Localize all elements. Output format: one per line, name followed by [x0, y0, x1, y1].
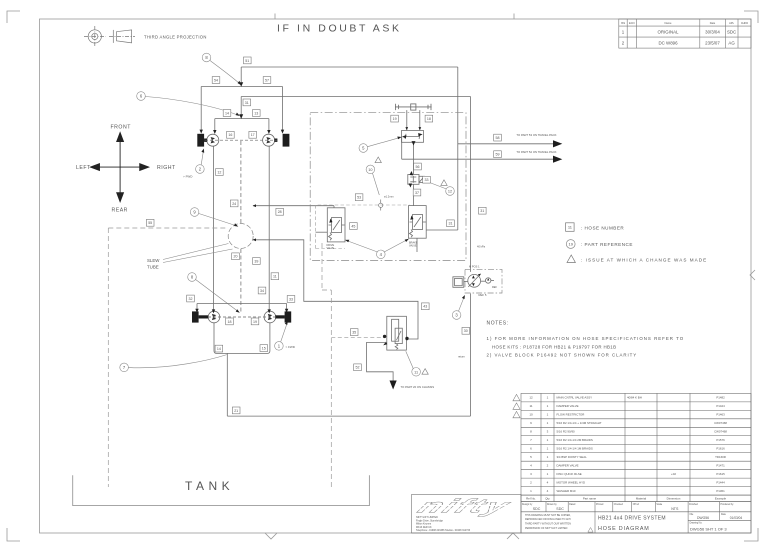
svg-text:Material: Material	[636, 497, 647, 501]
rear brake left	[192, 311, 199, 322]
svg-text:ISS: ISS	[621, 21, 625, 25]
svg-text:P1616: P1616	[716, 447, 725, 451]
svg-text:HOSE KITS : P18728 FOR HB21 &: HOSE KITS : P18728 FOR HB21 & P19797 FOR…	[492, 344, 616, 349]
svg-text:4: 4	[530, 464, 532, 468]
svg-text:Part name: Part name	[583, 497, 597, 501]
wire divider left port down	[401, 137, 403, 160]
svg-text:5/16 R2 1/4-1/4 + 1/4M STRAIGH: 5/16 R2 1/4-1/4 + 1/4M STRAIGHT	[557, 421, 602, 425]
front axle dashed line	[205, 139, 277, 141]
svg-text:TANK: TANK	[185, 479, 234, 493]
title block bottom row	[521, 512, 751, 533]
part ref 8 top	[202, 53, 239, 83]
svg-text:9: 9	[530, 421, 532, 425]
svg-text:11: 11	[273, 275, 277, 279]
svg-text:RIGHT: RIGHT	[157, 165, 176, 171]
hose tag 39	[253, 258, 261, 265]
hose tag 31	[447, 220, 455, 227]
svg-text:4: 4	[380, 252, 383, 257]
svg-text:1: 1	[530, 489, 532, 493]
parts row 2	[530, 481, 725, 485]
rear manifold upper	[197, 304, 287, 311]
parts row 11	[529, 404, 725, 408]
warning triangle 10	[375, 157, 381, 163]
svg-text:Checked: Checked	[614, 504, 624, 506]
svg-text:P1444: P1444	[716, 481, 725, 485]
svg-text:Qty: Qty	[545, 497, 550, 501]
svg-text:58: 58	[496, 136, 500, 140]
svg-text:1: 1	[547, 447, 549, 451]
svg-text:37: 37	[415, 191, 419, 195]
corner trim mark bottom-left	[7, 528, 20, 541]
wire right riser to brake valve	[457, 67, 459, 230]
svg-text:01/03/04: 01/03/04	[730, 516, 743, 520]
part ref 6	[137, 92, 238, 115]
hose tag 11	[271, 273, 279, 280]
hose tag 19	[251, 318, 259, 325]
drive valve right	[409, 206, 458, 252]
wire slew feed A	[253, 206, 334, 208]
svg-text:56: 56	[416, 165, 420, 169]
svg-text:1: 1	[547, 421, 549, 425]
svg-text:Dimension: Dimension	[667, 497, 681, 501]
svg-text:12: 12	[448, 190, 452, 194]
svg-text:REF: REF	[492, 286, 497, 289]
svg-text:VALVE: VALVE	[327, 247, 335, 250]
svg-text:P1463: P1463	[716, 413, 725, 417]
arrowhead hose31 riser	[239, 114, 243, 119]
hose tag 54	[212, 77, 220, 84]
svg-text:1: 1	[547, 404, 549, 408]
hose tag 19	[391, 115, 399, 122]
leader slew tube a	[163, 244, 229, 260]
hose tag 51	[244, 57, 252, 64]
bottom rail to pump	[227, 415, 470, 417]
hose tag 57	[263, 77, 271, 84]
svg-text:1: 1	[547, 413, 549, 417]
arrowhead leader 1	[285, 321, 288, 325]
svg-text:13: 13	[254, 111, 258, 115]
parts row 8	[530, 430, 727, 434]
parts row 7	[530, 438, 725, 442]
svg-text:TO PART 20 ON CHASSIS: TO PART 20 ON CHASSIS	[401, 385, 435, 389]
hose tag 18	[226, 318, 234, 325]
hose tag 53	[355, 194, 363, 201]
flow divider valve	[402, 131, 424, 143]
legend hose tag symbol	[566, 223, 575, 232]
svg-text:31: 31	[480, 209, 484, 213]
svg-text:2) VALVE BLOCK P16492 NOT SHOW: 2) VALVE BLOCK P16492 NOT SHOWN FOR CLAR…	[487, 353, 638, 358]
svg-text:2: 2	[622, 41, 625, 46]
svg-text:Drawing No.: Drawing No.	[690, 522, 703, 525]
svg-text:TD160R: TD160R	[715, 455, 726, 459]
svg-text:1) FOR MORE INFORMATION ON HOS: 1) FOR MORE INFORMATION ON HOSE SPECIFIC…	[487, 336, 685, 341]
svg-text:43: 43	[423, 305, 427, 309]
hose tag 14	[223, 110, 231, 117]
svg-text:Ref No.: Ref No.	[526, 497, 536, 501]
hose tag 17	[249, 131, 257, 138]
hose tag 32	[187, 295, 195, 302]
svg-text:: PART REFERENCE: : PART REFERENCE	[581, 242, 633, 247]
electric motor box	[453, 277, 468, 288]
revision table	[619, 19, 751, 48]
part ref 5	[359, 138, 399, 153]
svg-text:P1576: P1576	[716, 438, 725, 442]
rear lower manifold loop	[214, 323, 270, 354]
centre dashed line upper	[240, 141, 242, 223]
svg-text:PERMISSION OF NIFTYLIFT LIMITE: PERMISSION OF NIFTYLIFT LIMITED	[525, 527, 568, 530]
part ref 11	[406, 351, 421, 376]
svg-text:CW07468: CW07468	[714, 430, 727, 434]
arrowhead divider top left	[405, 127, 408, 130]
parts row 4	[530, 464, 725, 468]
hose tag 18	[425, 115, 433, 122]
arrowhead leader 4 right	[405, 239, 409, 242]
parts row 1	[530, 489, 725, 493]
svg-text:TUBE: TUBE	[147, 265, 159, 270]
svg-text:53: 53	[357, 196, 361, 200]
hose tag 34	[258, 287, 266, 294]
wire to part 52	[402, 158, 553, 160]
svg-text:SDC: SDC	[727, 30, 736, 35]
svg-text:: HOSE NUMBER: : HOSE NUMBER	[581, 225, 624, 230]
dashed return line to tank left	[107, 228, 109, 487]
port dot left	[383, 335, 386, 338]
svg-text:1: 1	[547, 438, 549, 442]
hose tag 56	[414, 163, 422, 170]
svg-text:12: 12	[529, 396, 533, 400]
svg-text:Date: Date	[721, 513, 727, 516]
svg-text:DAMPER VALVE: DAMPER VALVE	[557, 404, 579, 408]
svg-text:5: 5	[362, 146, 365, 151]
drive valve left	[316, 208, 345, 242]
bottom edge centre mark 2	[507, 533, 519, 539]
hose tag 43	[422, 303, 430, 310]
nifty logo	[413, 495, 517, 517]
svg-text:33: 33	[289, 297, 293, 301]
arrowhead divider top right	[418, 127, 421, 130]
svg-text:35: 35	[352, 331, 356, 335]
wire steering drops	[407, 110, 420, 130]
dashed branch to slew	[108, 227, 228, 229]
svg-text:23/5/07: 23/5/07	[705, 41, 720, 46]
svg-text:24: 24	[232, 202, 236, 206]
arrowhead pump swash	[478, 274, 481, 277]
change triangle row 12	[513, 394, 520, 400]
svg-text:39: 39	[254, 259, 258, 263]
svg-text:P1424: P1424	[716, 404, 725, 408]
orifice restrictor	[379, 200, 383, 211]
svg-text:> FWD: > FWD	[286, 345, 296, 349]
hose tag 55	[146, 219, 154, 226]
hose tag 21	[232, 407, 240, 414]
svg-text:34: 34	[260, 289, 264, 293]
change triangle row 11	[513, 403, 520, 409]
wire hose 51 top run	[241, 66, 458, 68]
svg-text:P1482: P1482	[716, 396, 725, 400]
top edge fold tick 2	[513, 14, 515, 20]
svg-text:File: File	[690, 514, 694, 516]
svg-text:4: 4	[547, 481, 549, 485]
wire rear drain riser	[226, 353, 228, 416]
svg-text:Name: Name	[665, 21, 672, 25]
corner trim mark top-right	[744, 11, 758, 23]
parts row 10	[529, 413, 725, 417]
svg-text:NTS: NTS	[671, 507, 679, 511]
arrowhead divider right	[418, 133, 422, 136]
svg-text:P1471: P1471	[716, 464, 725, 468]
svg-text:3/4 BSP DOWTY SEAL: 3/4 BSP DOWTY SEAL	[557, 455, 588, 459]
svg-text:2: 2	[547, 464, 549, 468]
wire right motor down line	[268, 146, 270, 311]
wire hose 31 run to pump	[241, 97, 470, 272]
rear axle dashed line	[208, 316, 278, 318]
svg-text:LEFT: LEFT	[76, 165, 91, 171]
svg-text:5: 5	[530, 455, 532, 459]
arrowhead leader 4 left	[345, 240, 349, 243]
arrowhead rear right motor line	[268, 309, 271, 313]
pump chain-dash box	[465, 269, 502, 293]
svg-text:THIRD PARTY WITHOUT OUR WRITTE: THIRD PARTY WITHOUT OUR WRITTEN	[525, 523, 571, 526]
part ref 3	[452, 297, 464, 319]
hose tag 16	[227, 131, 235, 138]
svg-text:Off ref: Off ref	[633, 503, 640, 506]
svg-text:MOTOR WHEEL HYD: MOTOR WHEEL HYD	[557, 481, 586, 485]
hose tag 37	[413, 189, 421, 196]
part ref 1	[275, 324, 287, 351]
part ref 10	[366, 165, 379, 195]
hose tag 20	[232, 253, 240, 260]
arrowhead travel 2	[553, 156, 562, 163]
parts row 3	[530, 472, 725, 476]
wire divider bottom down	[413, 142, 415, 174]
arrowhead feed A	[253, 204, 256, 207]
svg-text:17: 17	[251, 133, 255, 137]
svg-text:ORIGINAL: ORIGINAL	[658, 30, 680, 35]
svg-text:VALVE: VALVE	[409, 245, 417, 248]
svg-text:REAR: REAR	[112, 208, 128, 214]
legend part ref symbol	[566, 240, 575, 249]
orientation cross	[91, 133, 149, 202]
svg-text:20: 20	[234, 255, 238, 259]
parts row 5	[530, 455, 726, 459]
part ref 12	[427, 182, 454, 196]
hose tag 35	[350, 329, 358, 336]
leader slew tube b	[163, 249, 233, 263]
svg-text:IF IN DOUBT ASK: IF IN DOUBT ASK	[277, 23, 402, 35]
wire left motor down line	[213, 146, 215, 311]
front brake right	[283, 134, 290, 147]
svg-text:1: 1	[547, 396, 549, 400]
wire pump to bottom rail	[470, 294, 472, 417]
svg-text:9: 9	[193, 210, 196, 215]
svg-text:30: 30	[464, 329, 468, 333]
svg-text:54: 54	[214, 78, 218, 82]
hose tag 31	[479, 207, 487, 214]
junction dot divider bottom	[412, 141, 416, 145]
part ref 4	[347, 240, 408, 259]
svg-text:31: 31	[245, 101, 249, 105]
svg-text:8: 8	[205, 55, 208, 60]
arrowhead feed B	[253, 238, 256, 241]
svg-text:45: 45	[351, 224, 355, 228]
wire prv to brake valve	[413, 184, 415, 205]
hose tag 33	[287, 296, 295, 303]
svg-text:P1615: P1615	[716, 472, 725, 476]
svg-text:2: 2	[199, 167, 202, 172]
svg-text:3: 3	[530, 472, 532, 476]
hose tag 14	[215, 345, 223, 352]
svg-text:19: 19	[393, 117, 397, 121]
svg-text:6: 6	[530, 447, 532, 451]
svg-text:WASHER M10: WASHER M10	[557, 489, 576, 493]
svg-text:SDC: SDC	[556, 507, 564, 511]
svg-text:TO PART 52 ON TRAVEL PACK: TO PART 52 ON TRAVEL PACK	[516, 150, 556, 154]
arrowhead pump flow up	[472, 275, 475, 278]
svg-text:51: 51	[245, 59, 249, 63]
centre dashed line lower	[240, 249, 242, 314]
svg-text:40/84 K BH: 40/84 K BH	[627, 396, 642, 400]
svg-text:Finished: Finished	[689, 504, 698, 506]
arrowhead manifold left	[200, 130, 203, 134]
parts row 12	[529, 396, 725, 400]
arrowhead hose51 riser	[239, 82, 243, 87]
svg-text:1: 1	[278, 344, 281, 349]
svg-text:57: 57	[265, 78, 269, 82]
legend change triangle symbol	[567, 255, 575, 263]
svg-text:6: 6	[140, 94, 143, 99]
svg-text:10: 10	[368, 168, 372, 172]
svg-text:55: 55	[148, 221, 152, 225]
svg-text:NOTES:: NOTES:	[487, 321, 509, 327]
rear wheel motor left	[192, 311, 291, 323]
svg-text:TO PART 53 ON TRAVEL PACK: TO PART 53 ON TRAVEL PACK	[516, 133, 556, 137]
svg-text:DC W896: DC W896	[658, 41, 678, 46]
svg-text:59: 59	[496, 153, 500, 157]
svg-text:Printed: Printed	[596, 503, 604, 506]
arrowhead valve left port	[383, 342, 387, 346]
svg-text:18: 18	[427, 117, 431, 121]
slew tube circle	[228, 224, 253, 249]
svg-text:DWG56 SHT 1 OF 3: DWG56 SHT 1 OF 3	[690, 527, 727, 532]
svg-text:Drawn by: Drawn by	[547, 503, 558, 506]
svg-text:28: 28	[278, 210, 282, 214]
svg-text:CHKD: CHKD	[741, 21, 748, 25]
svg-text:DWG56: DWG56	[697, 516, 709, 520]
svg-text:SLEW: SLEW	[147, 258, 160, 263]
svg-text:FLOW RESTRICTOR: FLOW RESTRICTOR	[557, 413, 585, 417]
svg-text:8: 8	[530, 430, 532, 434]
svg-text:11: 11	[414, 371, 418, 375]
svg-text:52: 52	[356, 366, 360, 370]
rear brake right	[285, 311, 292, 322]
steering bar symbol	[395, 104, 432, 110]
svg-text:REPRODUCED OR DISCLOSED TO ANY: REPRODUCED OR DISCLOSED TO ANY	[525, 518, 571, 521]
svg-text:APL: APL	[729, 21, 734, 25]
arrowhead rear left motor line	[212, 309, 215, 313]
svg-text:Example: Example	[715, 497, 727, 501]
svg-text:MAIN CNTRL VALVE ASSY: MAIN CNTRL VALVE ASSY	[557, 396, 593, 400]
right edge centre mark	[750, 270, 755, 280]
parts row 9	[530, 421, 727, 425]
svg-text:HB21 4x4 DRIVE SYSTEM: HB21 4x4 DRIVE SYSTEM	[598, 515, 666, 521]
hose tag 15	[260, 345, 268, 352]
svg-text:SDC: SDC	[533, 507, 541, 511]
arrowhead right valve port	[410, 216, 413, 220]
arrowhead lower manifold right	[267, 130, 270, 134]
svg-text:21: 21	[234, 409, 238, 413]
svg-text:Telephone:- 01908 223456 Tele: Telephone:- 01908 223456 Telefax:- 01908…	[416, 529, 471, 532]
hose tag 45	[350, 223, 358, 230]
svg-text:return: return	[458, 355, 465, 359]
svg-text:16: 16	[228, 133, 232, 137]
svg-text:18: 18	[228, 320, 232, 324]
svg-text:19: 19	[568, 242, 573, 247]
svg-text:M POS 1: M POS 1	[469, 264, 480, 268]
warning triangle 11	[422, 369, 428, 375]
corner trim mark top-left	[7, 11, 20, 23]
warning triangle 12	[441, 180, 447, 186]
port dot right	[405, 337, 408, 340]
pressure reducing valve	[408, 175, 425, 185]
svg-text:HOSE DIAGRAM: HOSE DIAGRAM	[598, 526, 650, 532]
hose tag 52	[354, 364, 362, 371]
inner dashed box	[316, 205, 410, 249]
hose tag 59	[494, 151, 502, 158]
drain wire to chassis	[367, 342, 394, 380]
svg-text:12: 12	[217, 170, 221, 174]
hose tag 13	[253, 110, 261, 117]
part ref 9	[190, 208, 235, 226]
svg-text:10: 10	[529, 413, 533, 417]
svg-text:Date: Date	[710, 21, 716, 25]
svg-text:11: 11	[529, 404, 532, 408]
pump circle	[468, 274, 494, 287]
front wheel motor right	[263, 134, 275, 146]
arrowhead rear manifold right	[285, 309, 288, 313]
svg-text:1: 1	[547, 472, 549, 476]
svg-text:32: 32	[189, 297, 193, 301]
svg-text:30/3/04: 30/3/04	[705, 30, 720, 35]
svg-text:2: 2	[530, 481, 532, 485]
wire front manifold upper	[201, 87, 282, 132]
arrowhead to chassis	[390, 381, 397, 390]
top edge fold tick 1	[274, 14, 276, 20]
svg-text:3: 3	[547, 430, 549, 434]
part ref 8 lower	[188, 273, 238, 311]
hose tag 28	[276, 208, 284, 215]
hose tag 30	[462, 327, 470, 334]
arrowhead lower manifold left	[213, 130, 216, 134]
dot gauge	[487, 278, 489, 280]
svg-text:5/16 R2 1/4-1/4 1M BRAIDS: 5/16 R2 1/4-1/4 1M BRAIDS	[557, 447, 593, 451]
front wheel motor left	[197, 134, 289, 314]
arrowhead left valve port	[329, 219, 332, 223]
arrowhead leader 8	[238, 81, 242, 86]
design / drawn / scale row	[521, 502, 751, 512]
hose tag 24	[230, 200, 238, 207]
wire hose 51 riser	[240, 67, 242, 83]
hose tag 33	[423, 176, 431, 183]
svg-text:THIRD ANGLE PROJECTION: THIRD ANGLE PROJECTION	[144, 34, 207, 39]
parts table header row	[521, 495, 751, 502]
svg-text:1: 1	[547, 455, 549, 459]
arrowhead leader 5	[397, 137, 401, 140]
third angle projection symbol	[84, 26, 135, 47]
wire centre riser front	[240, 97, 242, 116]
svg-text:7: 7	[123, 365, 126, 370]
svg-text:REF 5: REF 5	[479, 293, 487, 297]
wire front manifold lower	[215, 119, 269, 132]
